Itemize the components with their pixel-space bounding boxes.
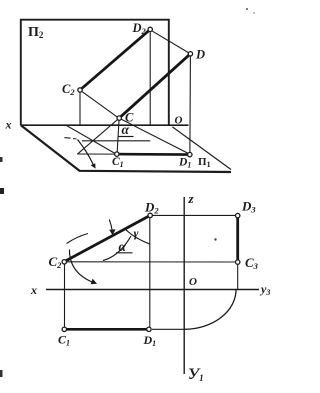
wire D2 dropline xyxy=(149,31,151,125)
svg-text:α: α xyxy=(122,122,130,137)
wire cross leg to C xyxy=(77,119,118,154)
small down arrow onto segment bottom xyxy=(109,220,112,231)
rotation hook arrow bottom xyxy=(67,234,89,244)
wire C2 to C1 dropline bottom xyxy=(64,264,66,328)
angle alpha arc bottom xyxy=(103,236,131,261)
wire C1D1 extension to piercing point xyxy=(77,153,115,155)
svg-text:z: z xyxy=(188,191,195,206)
wire D2 to D projector xyxy=(152,31,189,53)
segment C1-D1 bottom thick xyxy=(64,328,149,331)
point C1 top xyxy=(115,152,119,156)
point D3 xyxy=(236,213,240,217)
point C3 xyxy=(236,260,240,264)
axis z y1 vertical xyxy=(183,197,185,374)
svg-text:O: O xyxy=(189,276,197,288)
point C2 top xyxy=(78,88,82,92)
segment C1-D1 horizontal projection thick xyxy=(117,153,190,156)
svg-text:γ: γ xyxy=(134,226,139,240)
plane P2 frontal plane outline xyxy=(21,20,169,126)
wire C2 to C projector xyxy=(82,91,118,117)
wire C3 dropline to y3 axis xyxy=(237,264,239,289)
point D1 bottom xyxy=(147,327,151,331)
arc transfer quarter ellipse xyxy=(184,290,236,330)
wire C2 to C3 line xyxy=(67,261,236,263)
axis x of top figure xyxy=(21,124,189,126)
svg-text:α: α xyxy=(119,239,127,254)
segment C2-D2 frontal projection thick xyxy=(80,29,150,90)
rotation arc with arrow top figure xyxy=(78,140,94,165)
point D2 top xyxy=(148,27,152,31)
wire D1 extension to y1 axis xyxy=(152,328,184,330)
point C top xyxy=(117,116,121,120)
wire horizontal construction line xyxy=(82,140,150,142)
angle gamma arc bottom xyxy=(126,230,150,245)
segment C2-D2 bottom thick xyxy=(65,215,151,261)
point D2 bottom xyxy=(148,213,152,217)
wire C dropline to C1 xyxy=(117,120,119,152)
svg-text:D: D xyxy=(195,48,205,62)
segment D3-C3 thick xyxy=(236,216,239,263)
point D top xyxy=(188,52,192,56)
wire cross leg to C1 xyxy=(66,125,116,154)
point D1 top xyxy=(188,152,192,156)
rotation big arc bottom xyxy=(69,250,92,283)
plane P1 right edge xyxy=(172,127,231,170)
axis x-y3 bottom xyxy=(46,289,259,291)
point C2 bottom xyxy=(62,260,66,264)
segment C-D in space thick xyxy=(119,54,190,118)
wire D2 to D3 line xyxy=(152,214,235,216)
svg-text:x: x xyxy=(30,283,37,297)
wire D dropline to D1 xyxy=(189,56,192,153)
wire C2 dropline xyxy=(79,91,81,125)
svg-text:x: x xyxy=(5,118,12,132)
wire D2 to D1 dropline bottom xyxy=(149,218,151,328)
scan speck dots xyxy=(246,8,248,10)
point C1 bottom xyxy=(62,327,66,331)
wire C to D1 xyxy=(121,119,188,153)
rotation dash marks top figure xyxy=(65,138,77,139)
plane P1 horizontal plane outline xyxy=(21,125,231,172)
svg-text:O: O xyxy=(175,115,183,127)
